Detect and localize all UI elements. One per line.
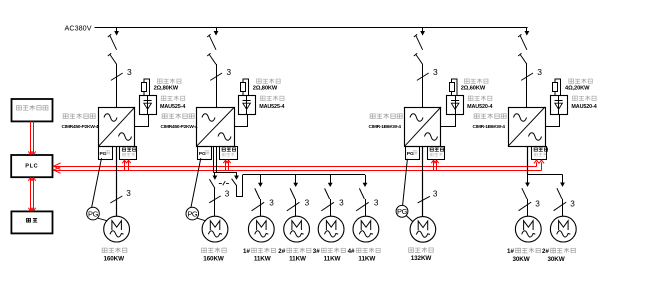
- contactor gantry 2 drop arrow: [295, 175, 297, 184]
- comm card U2 title: [222, 148, 236, 152]
- svg-text:30KW: 30KW: [512, 256, 529, 263]
- contactor KM1 drop arrow: [214, 172, 216, 176]
- wire to motor M9: [562, 199, 564, 217]
- svg-text:1#: 1#: [243, 248, 250, 255]
- motor M6: [353, 216, 379, 242]
- wire encoder PG1 to motor M1: [98, 218, 108, 221]
- inverter U4 box: [508, 107, 546, 147]
- breaker QF1 pole 1: [108, 34, 117, 50]
- svg-text:11KW: 11KW: [324, 255, 341, 262]
- svg-text:3#: 3#: [313, 248, 320, 255]
- svg-text:PG: PG: [187, 209, 198, 218]
- wire QF1 to inverter U1: [116, 64, 118, 107]
- motor M4: [284, 216, 310, 242]
- svg-text:2Ω,80KW: 2Ω,80KW: [253, 86, 278, 92]
- svg-text:PG: PG: [407, 151, 414, 157]
- label inverter U4: [474, 113, 506, 119]
- wire to motor M6: [365, 199, 367, 216]
- wire QF3 to inverter U3: [422, 64, 424, 107]
- red comm drop to card U1: [122, 160, 130, 170]
- svg-text:MAU520-4: MAU520-4: [467, 104, 492, 110]
- contactor gantry 3 drop arrow: [330, 175, 332, 184]
- svg-text:PG: PG: [88, 209, 99, 218]
- label braking unit V2: [260, 96, 284, 101]
- svg-text:AC380V: AC380V: [65, 23, 92, 32]
- wire inverter U1 output: [116, 146, 118, 216]
- svg-text:CIMR450-P2KW-4: CIMR450-P2KW-4: [161, 124, 198, 130]
- label motor M8: [507, 248, 514, 255]
- wire to motor M5: [330, 199, 332, 216]
- label motor M3: [243, 248, 250, 255]
- label braking unit V1: [161, 96, 185, 101]
- PG card U3: [406, 147, 420, 160]
- comm card U3 subtitle: [430, 153, 443, 157]
- red bus arrowhead into comm card U4: [534, 160, 544, 163]
- comm card U1: [120, 147, 137, 160]
- braking unit V3: [447, 95, 464, 115]
- svg-text:3: 3: [570, 200, 575, 209]
- svg-text:4Ω,20KW: 4Ω,20KW: [565, 86, 590, 92]
- meter box: [11, 211, 52, 233]
- motor M3: [248, 216, 274, 242]
- comm card U4: [532, 147, 547, 160]
- svg-text:11KW: 11KW: [289, 255, 306, 262]
- meter box label: [27, 218, 38, 222]
- contactor slewing 2 drop arrow: [562, 175, 564, 184]
- svg-text:3: 3: [226, 67, 231, 77]
- braking unit V1: [140, 95, 157, 115]
- svg-text:2Ω,80KW: 2Ω,80KW: [154, 86, 179, 92]
- slewing distribution bus: [528, 174, 563, 176]
- inverter U2 box: [197, 107, 235, 147]
- svg-text:3: 3: [269, 198, 274, 207]
- wire contactor KM1 to motor M2: [214, 188, 216, 216]
- svg-text:1#: 1#: [507, 248, 514, 255]
- wire to motor M8: [527, 199, 529, 217]
- inverter U3 box: [405, 107, 442, 147]
- 3-phase slash column 1: [111, 73, 123, 80]
- svg-text:3: 3: [339, 198, 344, 207]
- motor M7: [410, 217, 436, 243]
- svg-text:3: 3: [537, 67, 542, 77]
- breaker QF3 pole 2: [414, 53, 423, 64]
- breaker QF3 pole 1: [414, 34, 423, 50]
- bus AC380V: [95, 27, 528, 29]
- label motor M4: [278, 248, 285, 255]
- encoder PG2: [186, 207, 199, 220]
- wire QF4 to inverter U4: [526, 64, 528, 107]
- breaker QF2 tap arrow: [214, 28, 218, 35]
- contactor gantry 2 blade: [290, 188, 295, 199]
- comm card U4 title: [534, 148, 548, 152]
- svg-text:11KW: 11KW: [254, 255, 271, 262]
- console box: [12, 99, 53, 121]
- motor M1: [104, 216, 130, 242]
- svg-text:3: 3: [305, 198, 310, 207]
- PG card U3 label char: [413, 151, 417, 154]
- breaker QF2 pole 2: [207, 53, 216, 64]
- wire contactor KM2 to gantry bus: [237, 175, 243, 197]
- breaker QF1 tap arrow: [115, 28, 119, 35]
- svg-text:2#: 2#: [278, 248, 285, 255]
- wire braking unit V2 to inverter U2: [235, 114, 248, 127]
- PG card U1: [99, 147, 113, 160]
- 3-phase slash motor M3 feed: [252, 198, 275, 211]
- wire braking unit V4 to inverter U4: [545, 114, 560, 127]
- breaker QF4 tap arrow: [525, 28, 529, 35]
- motor M2: [202, 216, 228, 242]
- svg-text:4#: 4#: [348, 248, 355, 255]
- comm card U4 subtitle: [534, 153, 547, 157]
- 3-phase slash column 3: [417, 73, 429, 80]
- contactor KM2 drop arrow: [236, 172, 238, 176]
- braking resistor R1: [142, 79, 150, 95]
- svg-text:CIMR-1B6KW-4: CIMR-1B6KW-4: [473, 124, 506, 130]
- label braking resistor R3: [464, 78, 488, 83]
- comm card U2 subtitle: [222, 153, 235, 157]
- wires inverter U2 output pair: [214, 146, 217, 172]
- svg-text:MAU525-4: MAU525-4: [160, 104, 185, 110]
- 3-phase slash motor M1 feed: [110, 189, 131, 203]
- label inverter U1: [63, 113, 95, 119]
- wire encoder PG2 to motor M2: [197, 218, 206, 221]
- wire braking unit V3 to inverter U3: [441, 114, 456, 127]
- wire braking unit V1 to inverter U1: [135, 114, 149, 127]
- label motor M9: [542, 248, 549, 255]
- breaker QF3 tap arrow: [421, 28, 425, 35]
- label motor M6: [348, 248, 355, 255]
- wire to motor M3: [260, 199, 262, 216]
- svg-text:3: 3: [127, 67, 132, 77]
- comm card U2: [220, 147, 238, 160]
- PG card U1 label char: [106, 151, 110, 154]
- svg-text:160KW: 160KW: [103, 255, 124, 262]
- red link console to PLC: [28, 121, 35, 154]
- svg-text:3: 3: [374, 198, 379, 207]
- motor M9: [550, 216, 576, 242]
- wire PG card U3 to encoder PG3: [403, 159, 408, 206]
- label braking resistor R4: [569, 78, 593, 83]
- contactor gantry 1 blade: [255, 188, 260, 199]
- red comm bus line 2: [53, 162, 542, 170]
- red link PLC to meter: [28, 177, 35, 211]
- label motor M2: [202, 248, 227, 254]
- red comm drop to card U2: [223, 160, 230, 170]
- 3-phase slash column 2: [210, 73, 222, 80]
- svg-text:3: 3: [433, 189, 438, 198]
- contactor gantry 4 blade: [359, 188, 364, 199]
- label motor M5: [313, 248, 320, 255]
- label inverter U2: [162, 113, 194, 119]
- red bus arrowheads into PLC: [54, 163, 61, 173]
- interlock mark: [219, 181, 229, 185]
- svg-text:11KW: 11KW: [358, 255, 375, 262]
- label motor M7: [409, 247, 434, 253]
- wire inverter U4 output: [527, 146, 529, 174]
- 3-phase slash motor M4 feed: [287, 198, 310, 211]
- svg-text:30KW: 30KW: [547, 256, 564, 263]
- 3-phase slash motor M5 feed: [321, 198, 344, 211]
- PG card U2 label char: [205, 151, 209, 154]
- svg-text:3: 3: [433, 67, 438, 77]
- comm card U1 subtitle: [122, 153, 135, 157]
- svg-text:PG: PG: [100, 151, 107, 157]
- encoder PG3: [396, 205, 408, 217]
- wire inverter U3 output: [422, 146, 424, 216]
- svg-text:132KW: 132KW: [411, 255, 432, 262]
- PLC box: [11, 155, 52, 177]
- svg-text:160KW: 160KW: [203, 255, 224, 262]
- red comm drop to card U3: [431, 160, 438, 170]
- contactor gantry 4 drop arrow: [365, 175, 367, 184]
- console label: [16, 105, 48, 111]
- node bracket U2 output: [213, 172, 237, 174]
- label braking unit V3: [468, 96, 492, 101]
- motor M5: [318, 216, 344, 242]
- svg-text:2Ω,60KW: 2Ω,60KW: [461, 86, 486, 92]
- PG card U2: [198, 147, 212, 160]
- contactor slewing 1 drop arrow: [527, 175, 529, 184]
- wire encoder PG3 to motor M7: [406, 216, 412, 222]
- svg-text:2#: 2#: [542, 248, 549, 255]
- encoder PG1: [87, 207, 100, 220]
- label braking unit V4: [573, 96, 597, 101]
- contactor gantry 1 drop arrow: [260, 175, 262, 184]
- comm card U1 title: [122, 148, 136, 152]
- breaker QF4 pole 2: [518, 53, 527, 64]
- svg-text:MAU520-4: MAU520-4: [571, 104, 596, 110]
- contactor slewing 1 blade: [522, 188, 527, 199]
- braking resistor R4: [553, 79, 561, 95]
- label motor M1: [102, 248, 127, 254]
- label braking resistor R1: [157, 78, 181, 83]
- breaker QF2 pole 1: [207, 34, 216, 50]
- wire PG card U2 to encoder PG2: [191, 158, 201, 207]
- 3-phase slash motor M9 feed: [554, 200, 576, 211]
- svg-text:MAU525-4: MAU525-4: [259, 104, 284, 110]
- svg-text:3: 3: [126, 189, 131, 198]
- wire to motor M4: [295, 199, 297, 216]
- contactor KM2 blade: [232, 179, 237, 186]
- svg-text:PLC: PLC: [25, 164, 38, 170]
- label inverter U3: [370, 113, 402, 119]
- svg-text:3: 3: [535, 200, 540, 209]
- 3-phase slash motor M6 feed: [356, 198, 379, 211]
- motor M8: [515, 216, 541, 242]
- braking unit V4: [551, 95, 568, 115]
- braking resistor R3: [450, 79, 458, 95]
- svg-text:PG: PG: [397, 207, 408, 216]
- svg-text:3: 3: [225, 190, 230, 199]
- inverter U1 box: [99, 107, 136, 147]
- svg-text:PG: PG: [199, 151, 206, 157]
- contactor gantry 3 blade: [325, 188, 330, 199]
- red comm bus line 1: [53, 162, 537, 166]
- 3-phase slash column 4: [521, 73, 533, 80]
- 3-phase slash motor M2 feed: [209, 190, 230, 203]
- breaker QF1 pole 2: [108, 53, 117, 64]
- breaker QF4 pole 1: [518, 34, 527, 50]
- contactor slewing 2 blade: [557, 188, 562, 199]
- braking unit V2: [239, 95, 256, 115]
- svg-text:CIMR450-P2KW-4: CIMR450-P2KW-4: [62, 124, 99, 130]
- comm card U3: [428, 147, 445, 160]
- 3-phase slash motor M8 feed: [519, 200, 541, 211]
- braking resistor R2: [241, 79, 249, 95]
- wire QF2 to inverter U2: [216, 64, 218, 107]
- gantry distribution bus: [243, 174, 366, 176]
- contactor KM1 blade: [209, 179, 215, 188]
- svg-text:CIMR-1B6KW-4: CIMR-1B6KW-4: [369, 124, 402, 130]
- label braking resistor R2: [257, 78, 281, 83]
- wire PG card U1 to encoder PG1: [92, 158, 102, 207]
- 3-phase slash motor M7 feed: [418, 189, 438, 203]
- comm card U3 title: [430, 148, 444, 152]
